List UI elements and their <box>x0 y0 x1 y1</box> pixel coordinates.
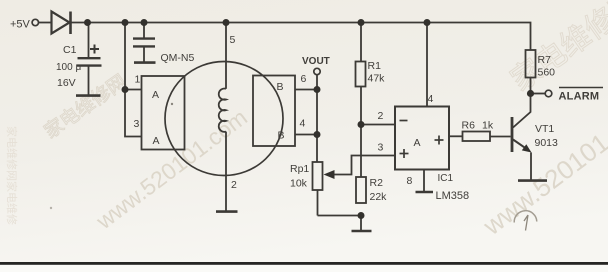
svg-text:16V: 16V <box>57 77 76 89</box>
svg-text:8: 8 <box>407 175 413 187</box>
svg-text:47k: 47k <box>368 73 386 85</box>
svg-text:10k: 10k <box>290 178 308 190</box>
svg-text:4: 4 <box>300 118 306 130</box>
svg-text:5: 5 <box>230 34 236 46</box>
svg-text:R6: R6 <box>462 120 476 132</box>
svg-text:IC1: IC1 <box>438 173 454 184</box>
svg-text:LM358: LM358 <box>436 190 470 202</box>
svg-text:100 μ: 100 μ <box>56 62 81 73</box>
svg-text:Rp1: Rp1 <box>290 163 309 175</box>
svg-text:VOUT: VOUT <box>302 56 330 67</box>
svg-text:B: B <box>277 81 284 93</box>
svg-text:1k: 1k <box>482 120 494 132</box>
svg-text:ALARM: ALARM <box>559 91 600 103</box>
svg-text:3: 3 <box>134 118 140 130</box>
svg-text:B: B <box>278 130 285 142</box>
svg-text:9013: 9013 <box>535 137 559 149</box>
svg-text:560: 560 <box>538 67 556 79</box>
svg-text:2: 2 <box>231 179 237 191</box>
svg-text:R7: R7 <box>538 54 552 66</box>
svg-text:C1: C1 <box>63 44 77 56</box>
svg-text:1: 1 <box>135 74 141 86</box>
svg-text:A: A <box>153 135 160 147</box>
svg-text:A: A <box>414 137 421 149</box>
svg-text:3: 3 <box>378 142 384 154</box>
svg-text:家电维修网家电维修: 家电维修网家电维修 <box>5 126 19 225</box>
svg-text:R2: R2 <box>370 177 384 189</box>
svg-text:+5V: +5V <box>10 19 31 31</box>
svg-text:QM-N5: QM-N5 <box>161 52 195 64</box>
svg-text:VT1: VT1 <box>535 123 554 135</box>
svg-text:R1: R1 <box>368 60 382 72</box>
svg-text:A: A <box>152 89 159 101</box>
svg-text:4: 4 <box>428 93 434 105</box>
svg-text:2: 2 <box>378 110 384 122</box>
svg-text:22k: 22k <box>370 191 388 203</box>
svg-text:6: 6 <box>301 73 307 85</box>
